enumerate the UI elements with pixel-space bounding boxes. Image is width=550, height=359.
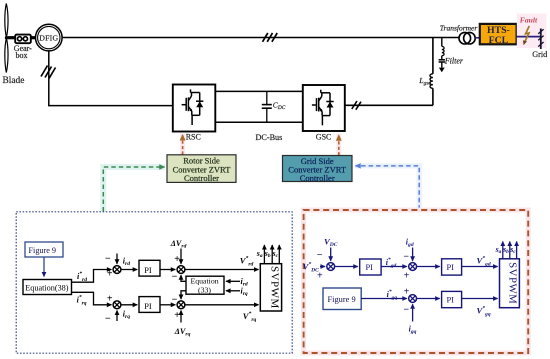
svg-text:(33): (33) <box>198 285 211 294</box>
svg-text:sb: sb <box>264 249 271 259</box>
svg-text:PI: PI <box>366 263 374 272</box>
svg-text:VDC: VDC <box>324 237 338 249</box>
svg-text:sc: sc <box>509 245 516 255</box>
svg-text:PI: PI <box>447 295 455 304</box>
svg-text:Filter: Filter <box>444 57 464 66</box>
svg-text:−: − <box>172 294 178 305</box>
svg-text:FCL: FCL <box>489 35 509 46</box>
svg-text:Lgsc: Lgsc <box>418 76 431 87</box>
svg-text:Equation: Equation <box>191 277 219 286</box>
svg-text:GSC: GSC <box>316 133 332 142</box>
svg-text:igd: igd <box>406 238 414 249</box>
svg-text:irq: irq <box>123 310 130 321</box>
svg-text:ird: ird <box>123 256 130 267</box>
svg-text:+: + <box>174 254 180 265</box>
svg-text:+: + <box>174 310 180 321</box>
svg-text:i*rd: i*rd <box>77 270 87 283</box>
svg-text:+: + <box>404 271 410 282</box>
svg-text:Blade: Blade <box>3 76 25 86</box>
svg-text:ΔVrq: ΔVrq <box>174 327 191 338</box>
svg-text:+: + <box>107 269 113 280</box>
svg-text:sa: sa <box>256 249 263 259</box>
svg-text:Fault: Fault <box>520 16 538 25</box>
svg-text:sc: sc <box>272 249 279 259</box>
svg-text:−: − <box>172 272 178 283</box>
svg-text:irq: irq <box>241 287 248 298</box>
svg-text:+: + <box>404 286 410 297</box>
svg-text:Grid: Grid <box>532 50 547 59</box>
svg-text:PI: PI <box>144 302 152 311</box>
svg-text:DFIG: DFIG <box>39 33 58 42</box>
svg-text:−: − <box>403 251 409 262</box>
svg-text:Figure 9: Figure 9 <box>328 295 356 304</box>
svg-text:Equation(38): Equation(38) <box>25 284 68 293</box>
svg-text:RSC: RSC <box>186 133 201 142</box>
svg-text:+: + <box>317 271 323 282</box>
svg-text:Figure 9: Figure 9 <box>29 246 57 255</box>
svg-text:Controller: Controller <box>300 173 335 183</box>
svg-text:SVPWM: SVPWM <box>506 262 518 304</box>
svg-text:−: − <box>403 305 409 316</box>
svg-text:V*gd: V*gd <box>477 255 491 268</box>
svg-text:CDC: CDC <box>273 100 286 111</box>
svg-text:i*rq: i*rq <box>77 294 87 307</box>
svg-text:sa: sa <box>495 245 502 255</box>
svg-text:DC-Bus: DC-Bus <box>256 133 283 142</box>
svg-text:V*gq: V*gq <box>477 304 491 317</box>
svg-text:Controller: Controller <box>184 173 219 183</box>
svg-text:ΔVrd: ΔVrd <box>170 239 187 250</box>
svg-text:−: − <box>317 250 323 261</box>
svg-text:box: box <box>16 51 28 60</box>
svg-text:Transformer: Transformer <box>440 24 478 33</box>
svg-text:SVPWM: SVPWM <box>268 266 280 309</box>
svg-text:V*rq: V*rq <box>243 310 257 323</box>
svg-text:PI: PI <box>144 266 152 275</box>
svg-text:sb: sb <box>502 245 509 255</box>
svg-text:+: + <box>107 294 113 305</box>
svg-text:igq: igq <box>409 325 417 336</box>
svg-text:−: − <box>105 254 111 265</box>
svg-text:V*rd: V*rd <box>240 254 254 267</box>
svg-text:−: − <box>105 313 111 324</box>
svg-text:PI: PI <box>447 263 455 272</box>
